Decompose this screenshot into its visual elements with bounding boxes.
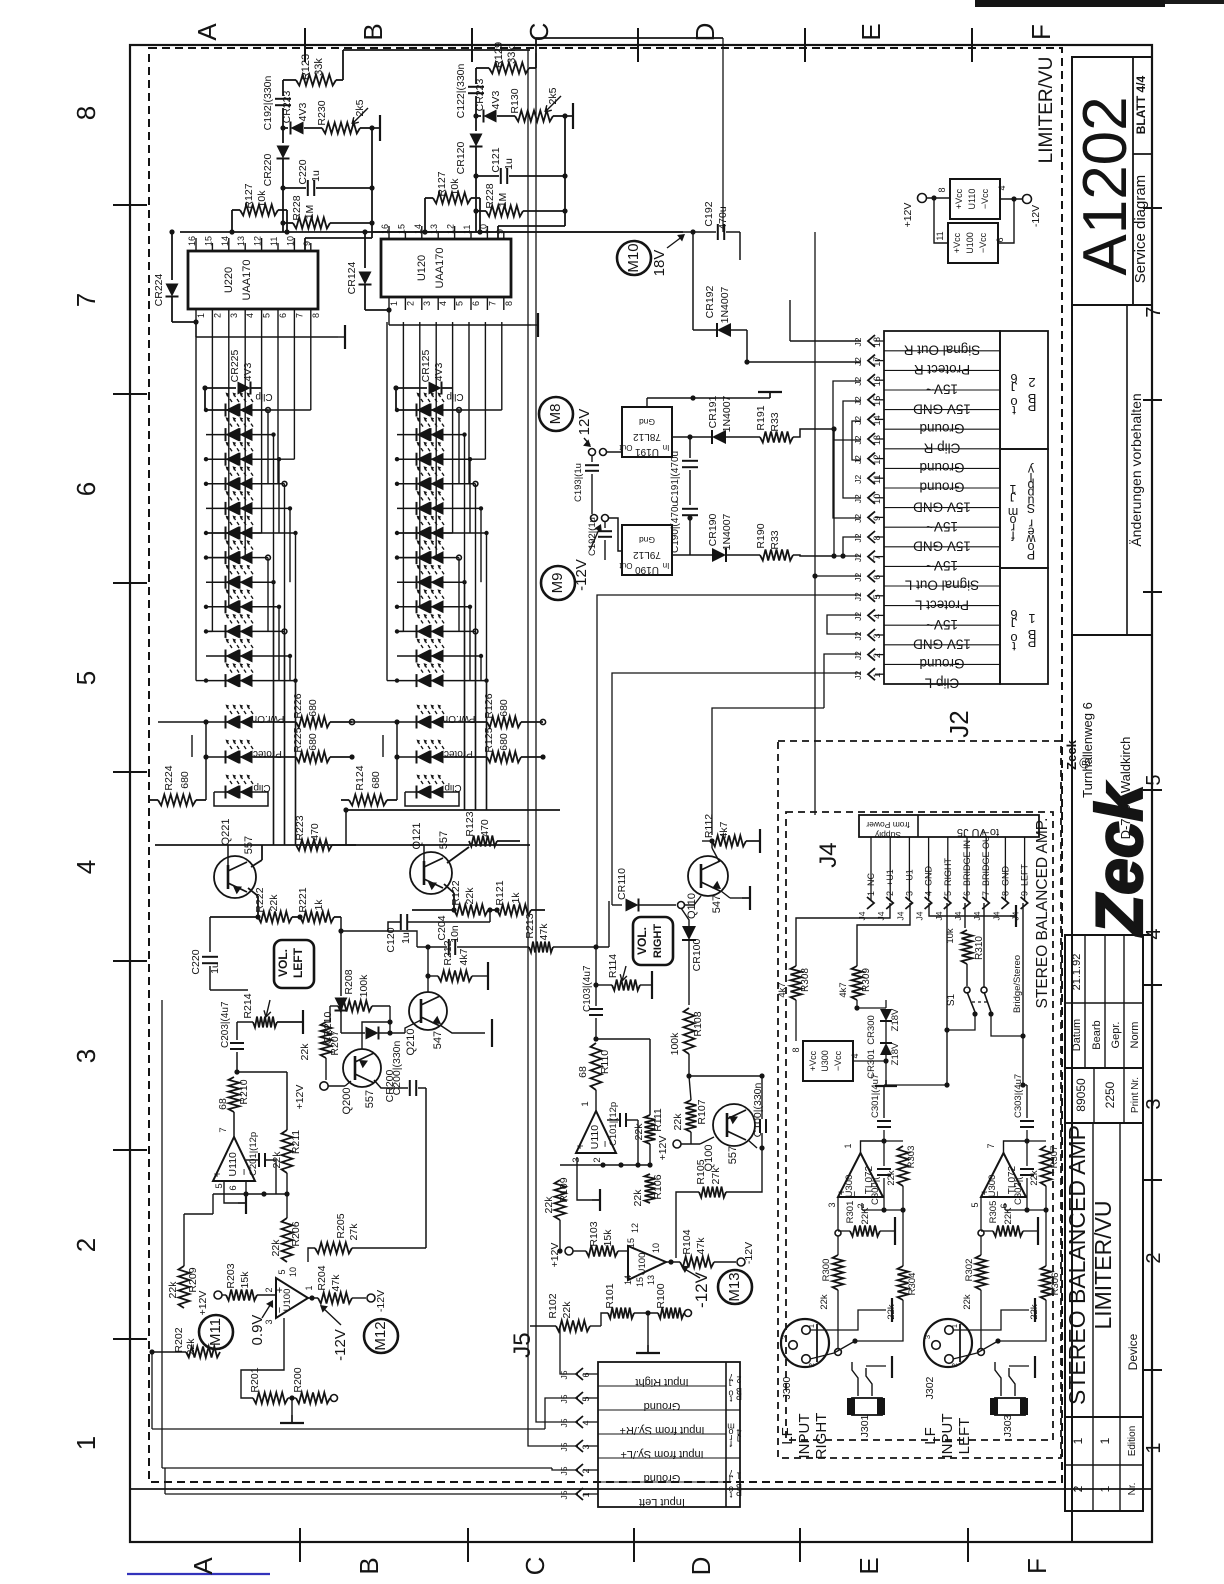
svg-text:R204: R204 [316, 1265, 328, 1290]
resistor R123 33k [296, 75, 336, 86]
svg-text:3: 3 [422, 301, 432, 306]
svg-text:4: 4 [245, 313, 255, 318]
resistor R111 22k [645, 1115, 656, 1144]
svg-text:R224: R224 [163, 765, 175, 790]
dashed module box outer [778, 741, 1061, 1458]
wire J2 pin5 long run to limiter [597, 595, 861, 947]
op-amp U110 (left limiter) [233, 1112, 235, 1137]
svg-text:Q200: Q200 [341, 1088, 353, 1115]
diode CR100 [688, 905, 690, 926]
svg-text:J303: J303 [1002, 1414, 1014, 1437]
wire [746, 330, 748, 362]
capacitor C200 330n [374, 1080, 408, 1088]
svg-text:13: 13 [236, 236, 246, 246]
wire [475, 211, 477, 232]
wire Q121 emitter [444, 884, 454, 893]
wire collector [427, 947, 429, 992]
wire collector [362, 1022, 390, 1049]
LED pair row 6 [397, 532, 417, 534]
left rail wires down [396, 722, 398, 800]
svg-text:1M: 1M [304, 205, 316, 220]
diode CR220 [277, 146, 290, 159]
svg-text:7: 7 [872, 555, 882, 560]
svg-text:o: o [1010, 631, 1017, 646]
resistor R102 22k [530, 1325, 556, 1327]
inner margin line left of title strip (binding margin) [130, 1488, 1152, 1490]
svg-text:8: 8 [872, 535, 882, 540]
svg-text:r: r [1029, 517, 1033, 531]
svg-text:6: 6 [962, 891, 972, 896]
svg-text:Gnd: Gnd [639, 417, 655, 427]
svg-text:UAA170: UAA170 [434, 248, 446, 289]
svg-text:R223: R223 [294, 815, 306, 840]
svg-text:R211: R211 [290, 1130, 302, 1154]
wire q100 base [761, 1147, 763, 1149]
IC U120 UAA170 box [381, 239, 511, 297]
transistor Q110 547 NPN [688, 856, 728, 896]
resistor R103 15k [565, 1247, 573, 1255]
svg-text:1: 1 [736, 1471, 741, 1481]
Aenderungen vorbehalten box [1072, 305, 1152, 635]
svg-text:GND: GND [924, 866, 934, 887]
ground under op-amp [224, 1181, 238, 1203]
svg-text:In: In [663, 561, 670, 570]
wire harness from J2 to module [873, 684, 875, 815]
svg-text:5: 5 [872, 594, 882, 599]
svg-text:R307: R307 [1049, 1146, 1060, 1169]
wire [689, 1075, 762, 1077]
wire [700, 1137, 714, 1144]
svg-text:C302|(: C302|( [1013, 1176, 1024, 1205]
svg-text:J4: J4 [915, 911, 925, 920]
capacitor C103 4u7 [595, 947, 597, 1006]
svg-text:6: 6 [71, 482, 101, 496]
meter circle M11 [199, 1315, 233, 1349]
svg-text:1: 1 [1028, 611, 1035, 626]
svg-text:-12V: -12V [692, 1271, 711, 1308]
svg-text:R102: R102 [547, 1293, 559, 1318]
svg-text:4: 4 [872, 614, 882, 619]
svg-text:M8: M8 [547, 404, 564, 425]
svg-text:2k5: 2k5 [547, 87, 559, 104]
wire 18V rail [490, 231, 693, 233]
svg-text:11: 11 [269, 237, 279, 246]
diode CR192 1N4007 [717, 323, 731, 337]
svg-text:4: 4 [997, 185, 1007, 190]
svg-text:CR300: CR300 [866, 1015, 877, 1045]
wire [553, 115, 565, 117]
LED pair row 11 [206, 655, 226, 657]
svg-text:J2: J2 [853, 416, 863, 425]
svg-text:8: 8 [937, 187, 947, 192]
svg-text:Z18V: Z18V [890, 1008, 901, 1031]
LED pair Protect [206, 756, 226, 758]
svg-text:VOL.: VOL. [276, 949, 290, 977]
transistor Q100 557 PNP [713, 1104, 755, 1146]
ground [277, 1021, 303, 1023]
svg-text:2: 2 [1071, 1485, 1085, 1492]
arrow -12V to node [590, 527, 600, 550]
IC U220 top pin stubs and numbers [195, 238, 197, 251]
wire J4 pin7 bridge out [983, 903, 985, 988]
svg-text:2: 2 [950, 1363, 959, 1367]
zener CR300 Z18V [885, 1000, 887, 1008]
svg-text:547: 547 [711, 895, 723, 913]
svg-text:J2: J2 [853, 651, 863, 660]
svg-text:B: B [354, 1557, 384, 1574]
svg-text:2: 2 [405, 301, 415, 306]
svg-text:o: o [728, 1485, 733, 1495]
svg-text:A: A [192, 23, 222, 41]
connector J2 label table box [884, 331, 1000, 684]
wire led supply rail [395, 388, 397, 410]
svg-text:Bridge/Stereo: Bridge/Stereo [1012, 955, 1023, 1013]
wire M11 rail [212, 1193, 214, 1195]
wire [237, 1071, 287, 1073]
op-amp U100 (right comparator) [628, 1246, 666, 1280]
svg-text:Zeck: Zeck [1064, 739, 1079, 769]
wire J5 input right to limiter [560, 1326, 578, 1374]
svg-text:15: 15 [872, 396, 882, 406]
wire [345, 810, 347, 845]
IC U220 bottom pin stubs and numbers [195, 309, 197, 322]
svg-text:Ground: Ground [644, 1472, 681, 1484]
grid ticks top edge [304, 28, 306, 62]
wire emitter [721, 891, 730, 898]
svg-text:R214: R214 [242, 993, 254, 1018]
LED block left rail wires [195, 322, 197, 681]
svg-text:J302: J302 [924, 1376, 936, 1399]
svg-text:R123: R123 [464, 811, 476, 836]
svg-text:R112: R112 [703, 814, 715, 838]
svg-text:R206: R206 [290, 1221, 302, 1246]
ground under IC [388, 310, 390, 325]
wire rail ch120 comparator top [722, 38, 724, 232]
svg-text:68: 68 [577, 1066, 589, 1078]
svg-text:C201|(12p: C201|(12p [248, 1132, 259, 1176]
svg-text:E: E [854, 1557, 884, 1574]
svg-text:−: − [992, 1191, 1004, 1197]
svg-text:680: 680 [307, 733, 319, 751]
wire J4 pin9 left input [1022, 903, 1024, 1085]
LED pair row 2 [206, 434, 226, 436]
wire output node [308, 1297, 318, 1299]
wire long rail B (Sy./R+) [536, 53, 578, 1422]
svg-text:1: 1 [950, 1324, 959, 1328]
svg-text:Datum: Datum [1071, 1019, 1083, 1051]
svg-text:22k: 22k [268, 894, 280, 912]
svg-text:Änderungen vorbehalten: Änderungen vorbehalten [1128, 393, 1144, 546]
ground [372, 127, 380, 129]
svg-text:33k: 33k [313, 58, 325, 76]
svg-text:C204: C204 [436, 915, 448, 940]
resistor R309 4k7 [852, 966, 863, 1000]
terminal pair [589, 449, 596, 456]
connector J4 pin 2 +U1 [889, 837, 891, 900]
svg-text:J2: J2 [853, 612, 863, 621]
resistor R125 680 [444, 756, 487, 758]
svg-text:A: A [188, 1557, 218, 1575]
capacitor C101 12p [619, 1113, 621, 1127]
svg-text:J2: J2 [944, 710, 974, 737]
svg-text:22k: 22k [672, 1113, 684, 1131]
resistor R106 22k [645, 1174, 656, 1203]
svg-text:1: 1 [843, 1143, 853, 1148]
svg-text:UAA170: UAA170 [241, 260, 253, 301]
transistor Q121 557 PNP [410, 852, 452, 894]
supply box U100 Vcc [948, 223, 998, 263]
IC U120 bottom pin stubs and numbers [388, 297, 390, 310]
svg-text:8: 8 [791, 1047, 801, 1052]
svg-text:M11: M11 [207, 1318, 224, 1346]
terminal +12V [918, 194, 927, 203]
svg-text:U220: U220 [223, 267, 235, 293]
svg-text:A1202: A1202 [1071, 96, 1140, 275]
svg-text:5: 5 [277, 1269, 287, 1274]
ground [742, 897, 750, 899]
svg-text:10: 10 [288, 1267, 298, 1277]
connector J4 pin 3 −U1 [908, 837, 910, 900]
svg-text:-12V: -12V [375, 1290, 387, 1312]
capacitor C201 12p [245, 1160, 247, 1181]
svg-text:C: C [520, 1557, 550, 1576]
svg-text:14: 14 [872, 415, 882, 425]
ground under IC [195, 322, 197, 337]
svg-text:RIGHT: RIGHT [943, 858, 953, 887]
resistor R209 22k [179, 1266, 190, 1308]
svg-text:557: 557 [364, 1090, 376, 1108]
svg-text:3: 3 [581, 1444, 591, 1449]
capacitor C302 [1026, 1141, 1028, 1166]
svg-text:LEFT: LEFT [291, 947, 305, 978]
svg-text:R125: R125 [483, 727, 495, 752]
svg-text:16: 16 [380, 224, 390, 234]
svg-text:2: 2 [581, 1468, 591, 1473]
svg-text:Input Left: Input Left [639, 1496, 685, 1508]
capacitor C193 1u [591, 456, 593, 462]
svg-text:o: o [1010, 395, 1017, 410]
resistor R100 [658, 1308, 684, 1319]
wire output node [666, 1261, 680, 1263]
svg-text:B: B [736, 1386, 742, 1396]
svg-text:J5: J5 [559, 1394, 569, 1403]
bottom rail ch120 LED block [346, 809, 560, 811]
svg-text:R212: R212 [442, 940, 454, 965]
svg-text:J5: J5 [559, 1418, 569, 1427]
svg-text:Input from Sy./R+: Input from Sy./R+ [619, 1424, 704, 1436]
op-amp U300 B (left) [981, 1153, 1026, 1197]
zener diode CR223 4V3 [283, 127, 288, 129]
svg-text:+: + [210, 1170, 224, 1177]
svg-text:+Vcc: +Vcc [952, 232, 962, 253]
svg-text:C193|(1u: C193|(1u [573, 463, 584, 502]
capacitor C191 470u [689, 437, 691, 458]
svg-text:680: 680 [179, 771, 191, 789]
svg-text:13: 13 [429, 224, 439, 234]
svg-text:12V: 12V [576, 409, 593, 436]
wire [856, 1000, 858, 1008]
svg-text:Protect R: Protect R [914, 362, 971, 377]
capacitor C192 1u (dup) [604, 522, 606, 528]
svg-text:Norm: Norm [1129, 1022, 1141, 1049]
LED pair Clip [405, 791, 417, 793]
connector J4 pin 4 GND [928, 837, 930, 900]
svg-text:18V: 18V [651, 250, 668, 277]
svg-text:U190: U190 [635, 564, 659, 575]
svg-text:10k: 10k [945, 928, 956, 944]
svg-text:R225: R225 [292, 727, 304, 752]
capacitor C190 470u [689, 505, 691, 510]
svg-text:7: 7 [1143, 306, 1165, 317]
svg-text:680: 680 [370, 771, 382, 789]
svg-text:J4: J4 [876, 911, 886, 920]
svg-text:C220: C220 [297, 159, 309, 184]
LED pair row 7 [397, 557, 417, 559]
wire J2 pins 14-12 bracket [852, 421, 861, 460]
Zeck address box [1072, 635, 1152, 935]
LED pair row 10 [397, 630, 417, 632]
svg-text:R111: R111 [652, 1108, 664, 1132]
LED pair row 3 [397, 458, 417, 460]
svg-text:6: 6 [872, 575, 882, 580]
svg-text:U100: U100 [965, 232, 975, 254]
svg-text:Ground: Ground [644, 1400, 681, 1412]
LED pair row 10 [206, 630, 226, 632]
svg-text:100k: 100k [669, 1032, 681, 1056]
svg-text:4: 4 [581, 1420, 591, 1425]
resistor R308 4k7 [791, 966, 802, 1000]
wire [329, 1006, 331, 1022]
svg-text:R108: R108 [692, 1011, 704, 1036]
resistor R228 1M [283, 222, 293, 224]
wire collector [711, 841, 713, 848]
svg-text:8: 8 [1000, 891, 1010, 896]
18V supply rail wire [180, 231, 490, 233]
svg-text:BLATT 4/4: BLATT 4/4 [1134, 75, 1148, 134]
svg-text:2: 2 [736, 1375, 741, 1385]
svg-text:R203: R203 [225, 1263, 237, 1288]
regulator U190 79L12 box [622, 525, 672, 575]
svg-text:to VU J5: to VU J5 [957, 826, 999, 838]
svg-text:+12V: +12V [902, 203, 914, 228]
svg-text:−Vcc: −Vcc [980, 188, 990, 209]
connector J4 pin 7 BRIDGE OUT [985, 837, 987, 900]
svg-text:+: + [836, 1189, 848, 1195]
svg-text:M13: M13 [726, 1272, 743, 1301]
svg-text:2250: 2250 [1103, 1081, 1117, 1108]
wire [336, 79, 343, 81]
wire CR220 branch [475, 116, 477, 131]
svg-text:CR191: CR191 [707, 395, 719, 428]
svg-text:4k7: 4k7 [777, 982, 788, 997]
svg-text:10: 10 [285, 236, 295, 246]
svg-text:2: 2 [872, 653, 882, 658]
svg-text:21.1.92: 21.1.92 [1071, 954, 1083, 991]
svg-text:R301: R301 [845, 1201, 856, 1224]
svg-text:R33: R33 [769, 412, 781, 431]
svg-text:15V~: 15V~ [926, 617, 958, 632]
wire J2 pin8 bracket [843, 537, 861, 556]
ground [472, 975, 488, 977]
wire [529, 67, 536, 69]
svg-text:22k: 22k [271, 1151, 283, 1169]
+12V terminal [673, 1140, 681, 1148]
wire J2 pin6 long vertical to module [814, 232, 816, 815]
svg-text:R226: R226 [292, 693, 304, 718]
svg-text:J5: J5 [509, 1332, 536, 1357]
svg-text:Bearb: Bearb [1091, 1020, 1103, 1049]
connector J4 pin 5 RIGHT [947, 837, 949, 900]
svg-text:R230: R230 [316, 100, 328, 125]
svg-text:12: 12 [630, 1223, 640, 1233]
svg-text:J2: J2 [853, 670, 863, 679]
svg-text:D: D [686, 1557, 716, 1576]
svg-text:4V3: 4V3 [242, 363, 254, 382]
svg-text:m: m [727, 1422, 735, 1432]
wire long rail A (Sy./L+) [528, 50, 578, 1446]
wire [282, 108, 284, 128]
ground [885, 1072, 887, 1080]
svg-text:R114: R114 [607, 954, 619, 978]
resistor R304 22k [898, 1266, 909, 1300]
svg-text:Input from Sy./L+: Input from Sy./L+ [620, 1448, 703, 1460]
svg-text:Ground: Ground [919, 656, 964, 671]
supply rail to Pwr.On [349, 721, 397, 723]
svg-text:22k: 22k [819, 1294, 830, 1310]
wire J4 pin4 ground [929, 903, 1010, 916]
transistor Q210 547 NPN [409, 992, 447, 1030]
device name box [1065, 1123, 1143, 1417]
wire J2 pin13 to R191 node [834, 439, 861, 441]
ground [291, 1415, 293, 1423]
wire input left harness [165, 1493, 578, 1495]
svg-text:R306: R306 [1050, 1273, 1061, 1296]
capacitor C192 470u [693, 231, 716, 233]
svg-text:STEREO BALANCED AMP: STEREO BALANCED AMP [1064, 1125, 1090, 1405]
svg-text:22k: 22k [886, 1170, 897, 1186]
svg-text:C301|(4u7: C301|(4u7 [870, 1074, 881, 1118]
capacitor C122 330n [468, 86, 484, 88]
arrow 18V to node [667, 236, 683, 248]
svg-text:F: F [1022, 1558, 1052, 1574]
wire [947, 1014, 975, 1030]
resistor R129 33k [489, 63, 529, 74]
supply box U110 Vcc [950, 179, 1000, 219]
svg-text:+12V: +12V [197, 1291, 209, 1316]
svg-text:22k: 22k [1029, 1170, 1040, 1186]
LED pair row 12 [397, 680, 417, 682]
wire [282, 223, 284, 232]
zener CR301 Z18V [880, 1043, 892, 1055]
capacitor C301 4u7 [883, 1130, 885, 1141]
resistor R105 27k [649, 1203, 651, 1215]
resistor R303 22k [884, 1140, 903, 1142]
svg-text:7: 7 [218, 1127, 229, 1132]
svg-text:1: 1 [196, 313, 206, 318]
svg-text:GND: GND [1000, 866, 1010, 887]
wire J2 pin2 down to module [824, 654, 861, 708]
wire XLR pin1 ground [953, 1310, 1029, 1330]
svg-text:C303|(4u7: C303|(4u7 [1013, 1074, 1024, 1118]
svg-text:C101|(12p: C101|(12p [608, 1102, 619, 1146]
meter circle M9 [541, 566, 575, 600]
svg-text:557: 557 [727, 1146, 739, 1164]
svg-text:10: 10 [872, 494, 882, 504]
svg-text:B: B [736, 1482, 742, 1492]
resistor R310 10k [962, 930, 973, 964]
svg-text:6: 6 [228, 1185, 239, 1190]
wire feedback box [288, 1397, 296, 1399]
